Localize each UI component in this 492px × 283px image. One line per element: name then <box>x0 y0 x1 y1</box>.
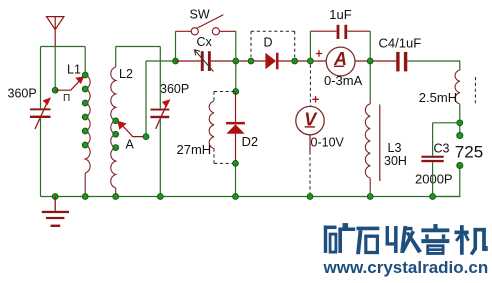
wire cap1 bottom lead <box>40 118 42 197</box>
wire D2 lead bottom <box>235 134 237 164</box>
capacitor 360P (right, variable) <box>150 99 170 129</box>
wire cap2 top lead <box>159 47 161 109</box>
ground <box>42 197 69 228</box>
wire V bottom <box>309 135 311 152</box>
tap arrowhead L2 <box>118 121 127 130</box>
node tap corner <box>143 134 149 140</box>
wire main line left <box>146 60 176 62</box>
node A/V junction <box>308 58 314 64</box>
diode D2 <box>226 122 245 134</box>
ammeter A <box>316 47 355 76</box>
tap arrowhead L1 <box>75 76 84 84</box>
char ji <box>455 231 469 235</box>
diode D <box>265 53 278 70</box>
svg-text:Cx: Cx <box>197 35 213 49</box>
char shou <box>386 226 389 245</box>
svg-text:www.crystalradio.cn: www.crystalradio.cn <box>323 258 489 277</box>
L3 core line <box>379 105 381 182</box>
svg-text:Π: Π <box>63 93 70 104</box>
wire 1uF verticals <box>310 31 370 58</box>
svg-text:0-3mA: 0-3mA <box>324 73 363 88</box>
svg-text:L1: L1 <box>67 63 81 77</box>
svg-text:A: A <box>126 137 135 151</box>
svg-text:0-10V: 0-10V <box>311 135 345 149</box>
voltmeter V <box>296 96 324 135</box>
wire D2 branch bottom <box>235 163 237 196</box>
svg-text:27mH: 27mH <box>177 142 212 157</box>
capacitor C4/1uF <box>396 52 407 72</box>
node C4 left <box>367 58 373 64</box>
svg-text:360P: 360P <box>160 82 189 96</box>
dashed box 27mH <box>214 92 235 164</box>
capacitor C3 <box>421 156 443 163</box>
wire L2 top lead <box>115 47 117 68</box>
wire bottom rail <box>41 196 460 198</box>
node D dashed right <box>292 58 298 64</box>
wire SW right vertical <box>235 31 237 61</box>
wire D2 lead top <box>235 92 237 122</box>
node earphone top <box>457 132 463 138</box>
inductor L1 <box>85 75 90 173</box>
char kuang: shi radical <box>324 226 337 230</box>
wire top-left rail <box>41 46 86 48</box>
capacitor C 360P (left, variable) <box>30 97 51 129</box>
wire C3 bottom lead <box>432 162 434 196</box>
char yin <box>433 224 437 229</box>
svg-text:1uF: 1uF <box>329 7 351 22</box>
wire 2.5mH bottom <box>459 104 461 136</box>
wire L3 top lead <box>369 61 371 99</box>
wire SW left vertical <box>175 31 177 61</box>
wire cap2 bottom lead <box>159 118 161 196</box>
wire D right <box>279 60 327 62</box>
svg-text:360P: 360P <box>8 87 37 101</box>
logo 矿石收音机 (drawn) <box>324 223 488 255</box>
antenna <box>47 17 64 46</box>
wire D2 branch top <box>235 61 237 92</box>
wire cap1 top lead <box>40 47 42 109</box>
svg-text:L2: L2 <box>119 67 133 81</box>
wire C3 top horizontal <box>433 122 460 124</box>
wire L2 tap vertical <box>145 61 147 137</box>
wire C4 right to corner <box>407 61 460 70</box>
inductor 27mH <box>209 101 214 149</box>
char kuang: guang part <box>343 223 349 228</box>
node D2 branch <box>233 89 239 95</box>
svg-text:725: 725 <box>455 143 483 162</box>
wire tap to L1 <box>55 81 79 90</box>
wire L2/cap2 top rail <box>116 46 161 48</box>
wire A right to C4 <box>355 60 396 62</box>
node L2 taps <box>113 118 119 151</box>
svg-text:C3: C3 <box>434 141 450 155</box>
wire L3 bottom lead <box>369 178 371 196</box>
wire L2 tap lead <box>122 125 146 136</box>
capacitor 1uF <box>310 25 370 39</box>
inductor L2 <box>111 67 116 188</box>
voltmeter V dashed top <box>309 65 311 107</box>
dashed core 2.5mH <box>474 77 476 104</box>
node D2 bottom <box>233 161 239 167</box>
char shi <box>356 227 379 231</box>
svg-text:C4/1uF: C4/1uF <box>379 36 422 51</box>
node main-SW junction <box>173 58 179 64</box>
svg-text:2000P: 2000P <box>415 171 453 186</box>
inductor L3 <box>365 104 370 178</box>
wire main line at Cx <box>176 60 266 62</box>
wire L1 bottom lead <box>84 173 86 197</box>
wire C3 top lead <box>432 123 434 156</box>
inductor 2.5mH <box>455 70 460 104</box>
node L1 taps <box>82 72 88 148</box>
node 2.5mH/C3 junction <box>457 120 463 126</box>
node earphone bottom <box>457 162 463 168</box>
dashed box around D <box>251 31 295 57</box>
wire earphone bottom lead <box>433 166 460 197</box>
svg-text:SW: SW <box>190 8 210 22</box>
svg-text:2.5mH: 2.5mH <box>419 90 457 105</box>
node Cx-D2branch junction <box>233 58 239 64</box>
svg-text:30H: 30H <box>384 154 407 168</box>
wire antenna drop green <box>54 46 56 90</box>
node antenna junction <box>52 87 58 93</box>
svg-text:D2: D2 <box>242 134 259 149</box>
switch SW <box>176 15 236 35</box>
wire V dashed bottom <box>309 152 311 197</box>
node rail junctions <box>52 194 435 200</box>
svg-text:D: D <box>264 36 273 50</box>
wire L1 top lead <box>84 47 86 76</box>
wire L2 bottom lead <box>115 188 117 197</box>
capacitor Cx variable <box>194 50 213 72</box>
node D dashed left <box>248 58 254 64</box>
